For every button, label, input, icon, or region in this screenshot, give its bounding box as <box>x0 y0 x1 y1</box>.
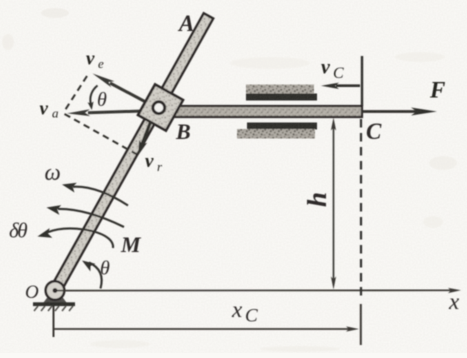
guide upper block <box>246 85 317 101</box>
node v_r label <box>145 151 163 174</box>
wire x-axis <box>57 288 461 293</box>
pivot rounded end <box>46 281 65 300</box>
wire dimension x_C <box>53 304 361 345</box>
angle arc theta at B <box>88 86 98 111</box>
moment M arc <box>47 205 125 227</box>
wire dimension h <box>331 118 336 290</box>
guide lower block <box>237 123 317 139</box>
node v_e label <box>86 49 104 72</box>
angular velocity omega arc <box>62 183 128 206</box>
rod BC <box>170 106 362 117</box>
wire dashed parallelogram side 2 <box>65 114 139 155</box>
slider block B <box>138 84 183 130</box>
node v_a label <box>40 99 60 121</box>
ground bar <box>33 302 75 306</box>
pivot pin <box>53 288 58 293</box>
velocity v_a arrow <box>67 109 157 116</box>
force arrow F <box>362 108 437 116</box>
wire dashed vertical through C <box>360 119 362 301</box>
velocity v_r arrow <box>138 122 151 156</box>
pin hole at B <box>153 102 165 114</box>
pivot foot at O <box>44 297 67 303</box>
velocity v_e arrow <box>93 74 158 109</box>
wire x-axis start through pivot <box>56 290 66 292</box>
node x_C label <box>231 297 258 327</box>
rod OA <box>47 13 213 299</box>
ground hatching <box>34 306 73 311</box>
virtual rotation delta-theta arc <box>38 228 114 248</box>
angle arc theta at O <box>82 261 102 289</box>
velocity v_C arrow <box>321 83 360 89</box>
wire solid vertical above C <box>361 56 363 106</box>
node v_C label <box>321 57 344 83</box>
wire dashed parallelogram side 1 <box>65 76 88 111</box>
